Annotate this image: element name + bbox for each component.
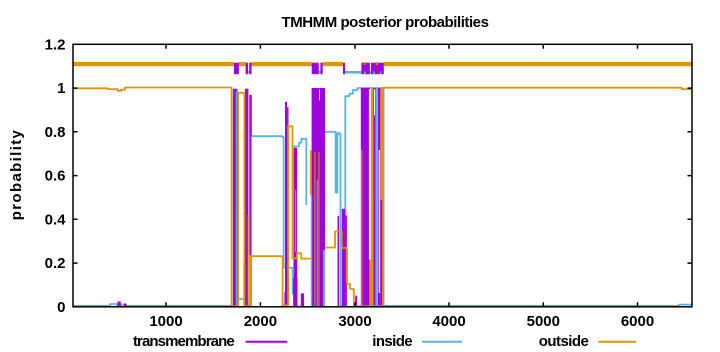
svg-text:1: 1: [57, 80, 65, 97]
orange stripes inside left mass: [295, 152, 319, 307]
orange bar segments y 62-66: [73, 62, 692, 66]
orange stripes in right mass: [361, 88, 383, 307]
purple bottom blob right mass: [381, 291, 383, 307]
svg-text:1.2: 1.2: [45, 37, 66, 54]
transmembrane (purple) spikes: [118, 88, 384, 307]
x tick labels: [149, 313, 654, 330]
svg-text:transmembrane: transmembrane: [133, 333, 234, 350]
svg-text:inside: inside: [372, 333, 412, 350]
white slits in purple masses: [319, 90, 380, 294]
ticks: [73, 44, 692, 307]
svg-text:0: 0: [57, 299, 65, 316]
blue notches over purple bottom: [364, 72, 381, 75]
blue bar segments y 71-73.5: [248, 71, 371, 74]
svg-text:outside: outside: [539, 333, 589, 350]
svg-text:6000: 6000: [621, 313, 654, 330]
outside (orange) main path: [73, 88, 692, 307]
svg-text:0.2: 0.2: [45, 255, 66, 272]
svg-text:TMHMM posterior probabilities: TMHMM posterior probabilities: [282, 14, 489, 31]
orange stubs over purple: [317, 62, 378, 65]
svg-text:5000: 5000: [527, 313, 560, 330]
purple bar blocks y 62-74: [234, 63, 384, 74]
legend: [133, 333, 589, 350]
svg-text:1000: 1000: [149, 313, 182, 330]
svg-text:0.6: 0.6: [45, 168, 66, 185]
blue stripes in right mass: [251, 88, 385, 307]
y tick labels: [45, 37, 67, 317]
svg-text:2000: 2000: [244, 313, 277, 330]
svg-text:0.4: 0.4: [45, 212, 67, 229]
blue core in first spike: [236, 91, 237, 307]
svg-text:3000: 3000: [338, 313, 371, 330]
svg-text:0.8: 0.8: [45, 124, 66, 141]
svg-text:probability: probability: [8, 129, 25, 221]
orange stripe inside spike S2: [248, 215, 249, 307]
plot border: [73, 44, 692, 307]
inside (blue) main path: [73, 88, 692, 306]
blue stripes inside left mass: [311, 180, 325, 307]
svg-text:4000: 4000: [432, 313, 465, 330]
